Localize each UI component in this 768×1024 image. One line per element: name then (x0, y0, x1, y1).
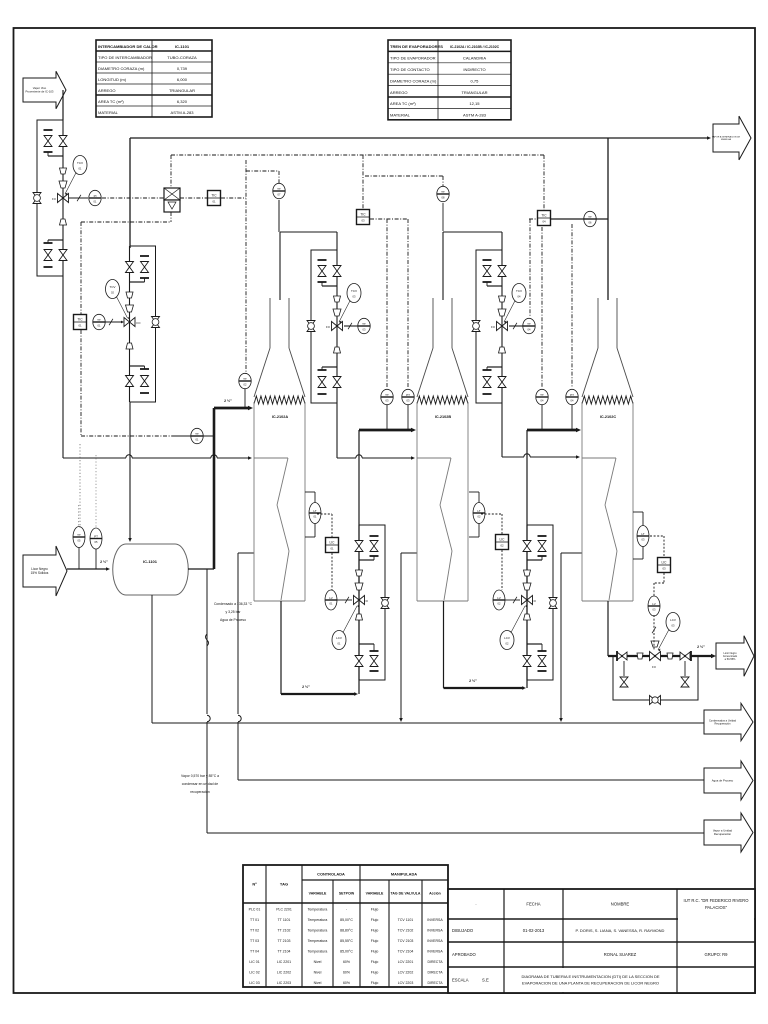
svg-text:04: 04 (542, 220, 546, 224)
pipe: IC-2102C calandria condensate drop (559, 553, 582, 722)
TT on IC-1101 outlet (TT-1101) (172, 428, 214, 443)
svg-text:Temperatura: Temperatura (308, 918, 328, 922)
signal LIC-02 to LV-02 (501, 550, 503, 590)
svg-text:ARREGO: ARREGO (98, 88, 116, 93)
svg-text:IC-1101: IC-1101 (175, 44, 190, 49)
block valves top (44, 130, 68, 156)
svg-text:IUT R.C. "DR FEDERICO RIVERO: IUT R.C. "DR FEDERICO RIVERO (684, 898, 750, 903)
bypass loop (37, 120, 63, 276)
TIC square station 4 loop (538, 211, 551, 226)
svg-text:TIC: TIC (77, 317, 83, 321)
pipe: condensate header to recuperation (152, 722, 704, 724)
svg-text:LCV: LCV (504, 636, 510, 640)
svg-text:TREN DE EVAPORADORES: TREN DE EVAPORADORES (390, 44, 443, 49)
svg-text:a 50-55%: a 50-55% (725, 658, 736, 661)
svg-text:ASTM A-283: ASTM A-283 (171, 110, 195, 115)
svg-text:2 ½": 2 ½" (100, 560, 108, 564)
drain valve left (620, 661, 628, 687)
pipe: station TCV-2104 to IC-2102C calandria (502, 403, 580, 459)
evaporator IC-2102A (254, 298, 305, 601)
svg-text:TIPO DE CONTACTO: TIPO DE CONTACTO (390, 67, 430, 72)
station 3: vapor A to B control TCV-2103 (307, 250, 370, 403)
svg-text:TT: TT (277, 187, 281, 191)
product bypass loop (359, 525, 385, 680)
final product line to output (608, 645, 716, 658)
svg-text:DIBUJADO: DIBUJADO (452, 928, 474, 933)
svg-text:IC-2102A: IC-2102A (272, 415, 289, 419)
svg-text:Flujo: Flujo (371, 939, 379, 943)
svg-text:TCV: TCV (110, 285, 116, 289)
svg-text:LIC: LIC (500, 537, 506, 541)
svg-text:MANIPULADA: MANIPULADA (391, 872, 417, 877)
LCV balloon (500, 605, 527, 650)
svg-text:LCV 2201: LCV 2201 (398, 960, 414, 964)
final bypass loop with globe valve (613, 656, 698, 705)
table: tren de evaporadores IC-2102A/B/C (388, 40, 511, 120)
svg-text:LIC 2203: LIC 2203 (277, 981, 291, 985)
table: control loops (243, 865, 448, 987)
station main line (501, 250, 503, 403)
LCV station B (493, 525, 557, 680)
svg-text:PT: PT (406, 393, 410, 397)
svg-text:Flujo: Flujo (371, 918, 379, 922)
svg-text:TT: TT (588, 215, 592, 219)
signal drop to TT vessel A vapor (246, 160, 285, 374)
TT on licor negro feed (73, 505, 85, 569)
final product block valve left (616, 651, 627, 661)
svg-text:60%: 60% (343, 981, 350, 985)
svg-text:03: 03 (361, 219, 365, 223)
svg-text:TT: TT (527, 322, 531, 326)
svg-text:Recuperación: Recuperación (714, 832, 732, 836)
svg-text:Nº: Nº (252, 882, 257, 887)
svg-text:Acción: Acción (429, 892, 441, 896)
LCV station A (325, 525, 389, 680)
svg-text:TRIANGULAR: TRIANGULAR (169, 88, 195, 93)
svg-text:TT: TT (441, 190, 445, 194)
svg-text:IC-1101: IC-1101 (143, 559, 158, 564)
station main line (336, 250, 338, 403)
station main line (526, 525, 528, 680)
pipe: IC-2102B calandria condensate drop (399, 553, 417, 722)
LIC square 02 (481, 514, 509, 550)
exchanger IC-1101 (113, 544, 189, 595)
svg-text:TIC: TIC (211, 193, 217, 197)
table: intercambiador de calor IC-1101 (96, 40, 212, 117)
svg-text:LIC 01: LIC 01 (249, 960, 259, 964)
svg-text:SETPOIN: SETPOIN (339, 892, 355, 896)
transmitter at valve inlet (509, 318, 535, 333)
svg-text:LIC 02: LIC 02 (249, 970, 259, 974)
pipe: vapor IC-2102B to station TCV-2104 (443, 232, 502, 300)
block valves top (523, 536, 547, 560)
LCV balloon final (658, 613, 680, 652)
svg-text:LV: LV (329, 596, 332, 600)
LV balloon final (648, 596, 660, 650)
loop TT-1101/TIC: square TIC (74, 315, 87, 330)
transmitter at valve inlet (344, 318, 370, 333)
LIC square 01 (317, 514, 339, 553)
block valves bottom (318, 367, 342, 394)
svg-text:VARIABLE: VARIABLE (309, 892, 327, 896)
svg-text:6,000: 6,000 (177, 77, 188, 82)
svg-text:MATERIAL: MATERIAL (390, 113, 411, 118)
svg-text:Nivel: Nivel (314, 970, 322, 974)
pipe: IC-1101 vapor to recovery header (206, 569, 211, 833)
signal FQ to TIC-02 (81, 212, 171, 314)
svg-text:LT: LT (477, 509, 480, 513)
block arrow out: licor negro concentrado (716, 636, 754, 677)
svg-text:ENERGIA: ENERGIA (721, 138, 731, 141)
svg-text:01-02-2013: 01-02-2013 (523, 928, 545, 933)
svg-text:03: 03 (662, 567, 666, 571)
svg-text:TT: TT (77, 533, 81, 537)
svg-text:TCV: TCV (77, 161, 83, 165)
svg-text:Recuperación: Recuperación (714, 722, 731, 726)
svg-text:LT: LT (313, 509, 316, 513)
svg-text:INTERCAMBIADOR DE CALOR: INTERCAMBIADOR DE CALOR (98, 44, 158, 49)
svg-text:S.E: S.E (482, 978, 489, 983)
final control valve LCV-2203 (637, 641, 673, 669)
LV balloon (325, 590, 352, 610)
svg-text:TIPO DE INTERCAMBIADOR: TIPO DE INTERCAMBIADOR (98, 55, 152, 60)
svg-text:01: 01 (78, 324, 82, 328)
svg-text:TCV 1101: TCV 1101 (398, 918, 414, 922)
svg-text:NOMBRE: NOMBRE (611, 902, 630, 907)
svg-text:LCV: LCV (336, 636, 342, 640)
block arrow: Vapor Vivo Proveniente de IC-103 (23, 71, 66, 108)
block valves top (483, 260, 507, 286)
pipe: station TCV-2103 to IC-2102B calandria (337, 403, 415, 460)
svg-text:condensar en unidad de: condensar en unidad de (182, 782, 218, 786)
signal TT-1101 to TIC-02 (80, 330, 172, 528)
svg-text:TCV 2103: TCV 2103 (398, 939, 414, 943)
pipe: steam from station 1 to IC-2102A calandria (63, 276, 252, 460)
pipe: vapor riser from IC-2102C to header (607, 138, 609, 300)
svg-text:85,00°C: 85,00°C (340, 918, 353, 922)
svg-text:TCV: TCV (516, 289, 522, 293)
svg-text:TT 2104: TT 2104 (278, 949, 291, 953)
svg-text:TT 04: TT 04 (250, 949, 259, 953)
LCV balloon (332, 605, 359, 650)
pipe: licor negro feed into IC-1101 (67, 560, 110, 571)
svg-text:Temperatura: Temperatura (308, 928, 328, 932)
svg-text:Flujo: Flujo (371, 928, 379, 932)
svg-text:TT 03: TT 03 (250, 939, 259, 943)
svg-text:LCV 2202: LCV 2202 (398, 970, 414, 974)
product bypass loop (527, 525, 553, 680)
svg-text:IC-2102B: IC-2102B (435, 415, 452, 419)
PT on licor negro feed (90, 455, 102, 569)
svg-text:Flujo: Flujo (371, 907, 379, 911)
TT on vapor line at header (550, 211, 608, 226)
control valve TCV 02 (124, 292, 141, 349)
block valves bottom (483, 367, 507, 394)
svg-text:DIRECTA: DIRECTA (427, 970, 443, 974)
block valves top (318, 260, 342, 286)
control valve TCV 01 (52, 168, 68, 225)
signal TIC-03 drop (362, 155, 364, 209)
svg-text:TT: TT (243, 377, 247, 381)
signal LIC-01 to LV-01 (331, 553, 333, 590)
block arrow out: vapor a unidad recuperacion (704, 813, 753, 852)
svg-text:PLC 2201: PLC 2201 (276, 907, 292, 911)
svg-text:88,89°C: 88,89°C (340, 928, 353, 932)
svg-text:0,75: 0,75 (471, 78, 480, 83)
svg-text:Condensado a 136,33 °C: Condensado a 136,33 °C (214, 602, 253, 606)
bypass loop (311, 250, 337, 403)
svg-text:DIRECTA: DIRECTA (427, 981, 443, 985)
svg-text:TIPO DE EVAPORADOR: TIPO DE EVAPORADOR (390, 56, 436, 61)
svg-text:APROBADO: APROBADO (452, 952, 476, 957)
loop TT balloon at station 2 (93, 314, 124, 329)
svg-text:LCV: LCV (670, 618, 676, 622)
level taps LT 03 on IC-2102C (633, 512, 649, 559)
svg-text:AREA TC (m²): AREA TC (m²) (390, 101, 416, 106)
svg-text:TCV 2102: TCV 2102 (398, 928, 414, 932)
station main line (129, 246, 131, 402)
station main line (62, 120, 64, 276)
svg-text:2 ½": 2 ½" (697, 645, 705, 649)
svg-text:Nivel: Nivel (314, 981, 322, 985)
pipe: IC-2102C bottom outlet (607, 601, 609, 656)
text note: vapor 0,570 bar (181, 774, 219, 794)
block arrow: Licor Negro 15% Solidos (23, 546, 67, 596)
control valve TCV 03 (326, 296, 342, 353)
svg-text:MATERIAL: MATERIAL (98, 110, 119, 115)
level taps LT 02 (469, 492, 485, 537)
level control valve LCV 01 (354, 570, 369, 620)
TT/PT pair on feed to IC-2102B (381, 389, 414, 430)
LIC square 03 (650, 536, 671, 573)
bypass globe valve (307, 321, 315, 332)
svg-text:TT: TT (385, 393, 389, 397)
svg-text:·: · (475, 902, 477, 907)
pipe: IC-2102A calandria condensate to agua de proceso header (238, 553, 254, 780)
station 4: vapor B to C control TCV-2104 (472, 250, 535, 403)
svg-text:INDIRECTO: INDIRECTO (463, 67, 485, 72)
block arrow out: vapor a generacion de energia (712, 116, 751, 160)
svg-text:DIAGRAMA DE TUBERIA E INSTRUME: DIAGRAMA DE TUBERIA E INSTRUMENTACION (D… (521, 974, 659, 979)
station main line (358, 525, 360, 680)
svg-text:TT: TT (97, 318, 101, 322)
pipe: vapor header to energy generation (130, 136, 711, 248)
svg-text:INVERSA: INVERSA (427, 918, 443, 922)
svg-text:LIC: LIC (330, 540, 336, 544)
svg-text:85,55°C: 85,55°C (340, 939, 353, 943)
block valves top (355, 536, 379, 560)
svg-text:TRIANGULAR: TRIANGULAR (461, 90, 487, 95)
TT/PT pair on feed to IC-2102C (536, 389, 578, 430)
svg-text:LV: LV (497, 596, 500, 600)
svg-text:Temperatura: Temperatura (308, 949, 328, 953)
svg-text:VAPOR A GENERACION DE: VAPOR A GENERACION DE (712, 135, 741, 138)
bypass globe valve (33, 193, 41, 204)
riser: IC-2102A product to IC-2102B feed (359, 428, 416, 694)
evaporator IC-2102B (417, 298, 468, 601)
bypass globe valve (152, 317, 160, 328)
svg-text:Agua de Proceso: Agua de Proceso (220, 618, 246, 622)
pipe: IC-1101 heated liquor outlet riser (2 1/2in feed to IC-2102A) (188, 399, 253, 569)
block valves bottom (355, 644, 379, 671)
svg-text:LV: LV (652, 602, 655, 606)
svg-text:PT: PT (94, 534, 98, 538)
level taps LT 01 (305, 492, 321, 537)
svg-text:01: 01 (212, 200, 216, 204)
control valve TCV 04 (491, 296, 507, 353)
pipe: vapor IC-2102A to station TCV-2103 (280, 232, 337, 300)
svg-text:Flujo: Flujo (371, 970, 379, 974)
block arrow out: condensados a unidad recuperacion (704, 703, 753, 740)
bypass globe valve (549, 598, 557, 609)
svg-text:Agua de Proceso: Agua de Proceso (712, 778, 734, 782)
block valves top (126, 256, 150, 282)
PI on station 1 outlet signal (69, 190, 101, 205)
svg-text:DIAMETRO CORAZA (m): DIAMETRO CORAZA (m) (98, 66, 145, 71)
svg-text:LONGITUD (m): LONGITUD (m) (98, 77, 127, 82)
svg-text:CONTROLADA: CONTROLADA (317, 872, 345, 877)
svg-text:TT 02: TT 02 (250, 928, 259, 932)
block arrow out: agua de proceso (704, 761, 753, 800)
bypass globe valve (381, 598, 389, 609)
signal TIC-04 to feed transmitters C (529, 219, 572, 388)
flow totalizer squares FQ (164, 188, 180, 212)
svg-text:2 ½": 2 ½" (469, 679, 477, 683)
svg-text:DIRECTA: DIRECTA (427, 960, 443, 964)
final product block valve right (680, 651, 691, 661)
svg-text:LIC 2202: LIC 2202 (277, 970, 291, 974)
station 2: steam to IC-1101 control TCV-1101 (106, 246, 160, 402)
svg-text:02: 02 (500, 544, 504, 548)
svg-text:FECHA: FECHA (526, 902, 540, 907)
svg-text:TAG DE VALVULA: TAG DE VALVULA (391, 892, 421, 896)
svg-text:LT: LT (641, 532, 644, 536)
instrument balloon TCV 03 (339, 284, 361, 324)
svg-text:DIAMETRO CORAZA (m): DIAMETRO CORAZA (m) (390, 78, 437, 83)
instrument balloon TCV 02 (106, 280, 130, 320)
svg-text:TT: TT (540, 393, 544, 397)
signal: station1 valve to TIC-01 (70, 197, 246, 199)
block valves bottom (126, 366, 150, 393)
instrument balloon TCV 01 (65, 156, 87, 196)
svg-text:15% Sólidos: 15% Sólidos (31, 571, 49, 575)
svg-text:PT: PT (570, 393, 574, 397)
svg-text:6,320: 6,320 (177, 99, 188, 104)
svg-text:Nivel: Nivel (314, 960, 322, 964)
svg-text:TUBO-CORAZA: TUBO-CORAZA (167, 55, 197, 60)
level control valve LCV 02 (522, 570, 537, 620)
block valves bottom (523, 644, 547, 671)
svg-text:INVERSA: INVERSA (427, 928, 443, 932)
title block (448, 889, 755, 993)
svg-text:Flujo: Flujo (371, 949, 379, 953)
svg-text:ASTM A-283: ASTM A-283 (463, 113, 487, 118)
station 1: live steam control TCV-2102 (33, 90, 87, 276)
evaporator IC-2102C (582, 298, 633, 601)
svg-text:01: 01 (330, 547, 334, 551)
svg-text:IC-2102C: IC-2102C (600, 415, 617, 419)
svg-text:2 ½": 2 ½" (302, 685, 310, 689)
svg-text:y 3,25 bar: y 3,25 bar (225, 610, 241, 614)
svg-text:TT 1101: TT 1101 (278, 918, 291, 922)
svg-text:60%: 60% (343, 960, 350, 964)
svg-text:LIC 03: LIC 03 (249, 981, 259, 985)
svg-text:Vapor 0,570 bar y 85°C a: Vapor 0,570 bar y 85°C a (181, 774, 219, 778)
svg-text:Proveniente de IC-103: Proveniente de IC-103 (26, 90, 54, 94)
svg-text:recuperacion: recuperacion (190, 790, 210, 794)
svg-text:IC-2102A / IC-2102B / IC-2102C: IC-2102A / IC-2102B / IC-2102C (450, 45, 500, 49)
svg-text:LCV 2203: LCV 2203 (398, 981, 414, 985)
text note: condensado a 136,33C (214, 602, 253, 622)
svg-text:TT: TT (362, 322, 366, 326)
instrument balloon TCV 04 (504, 284, 526, 324)
pipe: IC-2102A bottom outlet (281, 601, 358, 696)
drain valve right (681, 661, 689, 687)
svg-text:EVAPORACION DE UNA PLANTA DE R: EVAPORACION DE UNA PLANTA DE RECUPERACIO… (522, 981, 659, 986)
svg-text:TAG: TAG (280, 882, 288, 887)
svg-text:RONAL SUAREZ: RONAL SUAREZ (604, 952, 637, 957)
svg-text:PALACIOS": PALACIOS" (705, 905, 728, 910)
bypass globe valve (472, 321, 480, 332)
svg-text:PLC 01: PLC 01 (249, 907, 261, 911)
riser: IC-2102B product to IC-2102C feed (527, 428, 581, 688)
svg-text:0,739: 0,739 (177, 66, 188, 71)
svg-text:PI: PI (94, 194, 97, 198)
svg-text:GRUPO: R9: GRUPO: R9 (704, 952, 728, 957)
svg-text:CALANDRIA: CALANDRIA (463, 56, 486, 61)
svg-text:LIC 2201: LIC 2201 (277, 960, 291, 964)
svg-text:Flujo: Flujo (371, 960, 379, 964)
svg-text:TIC: TIC (541, 213, 547, 217)
signal trunk at y=155 (171, 155, 544, 210)
svg-text:60%: 60% (343, 970, 350, 974)
svg-text:Temperatura: Temperatura (308, 907, 328, 911)
svg-text:TIC: TIC (360, 212, 366, 216)
signal TIC-03 to feed transmitters B (370, 219, 408, 388)
pipe: agua de proceso header (238, 779, 704, 781)
TT on feed to IC-2102A (239, 373, 251, 408)
svg-text:P. DORIS, S. LIANA, S. VANESSA: P. DORIS, S. LIANA, S. VANESSA, R. RAYMO… (576, 928, 665, 933)
svg-text:TT 01: TT 01 (250, 918, 259, 922)
svg-text:TCV: TCV (351, 289, 357, 293)
svg-text:ESCALA: ESCALA (452, 978, 469, 983)
svg-text:AREA TC (m²): AREA TC (m²) (98, 99, 124, 104)
svg-text:TCV 2104: TCV 2104 (398, 949, 414, 953)
svg-text:INVERSA: INVERSA (427, 949, 443, 953)
pipe: steam from station TCV-1101 down into IC-1101 (128, 402, 132, 542)
svg-text:TT: TT (195, 432, 199, 436)
svg-text:85,00°C: 85,00°C (340, 949, 353, 953)
svg-text:Flujo: Flujo (371, 981, 379, 985)
TIC square station 3 loop (357, 210, 370, 225)
pipe: IC-2102B bottom outlet (444, 601, 527, 690)
pipe: IC-1101 condensate drain to condensate header (151, 595, 153, 723)
svg-text:ARREGO: ARREGO (390, 90, 408, 95)
svg-text:2 ½": 2 ½" (224, 399, 232, 403)
svg-text:Temperatura: Temperatura (308, 939, 328, 943)
pipe: vapor header to recuperation unit (207, 832, 704, 834)
signal LIC-03 to LV-03 (654, 573, 664, 596)
svg-text:LIC: LIC (662, 560, 668, 564)
signal TIC-03 to TT B vapor (365, 176, 449, 231)
svg-text:TT 2103: TT 2103 (278, 939, 291, 943)
svg-text:TT 2102: TT 2102 (278, 928, 291, 932)
svg-text:12,15: 12,15 (469, 101, 480, 106)
svg-text:VARIABLE: VARIABLE (366, 892, 384, 896)
svg-text:INVERSA: INVERSA (427, 939, 443, 943)
block valves bottom (44, 240, 68, 267)
bypass loop (476, 250, 502, 403)
